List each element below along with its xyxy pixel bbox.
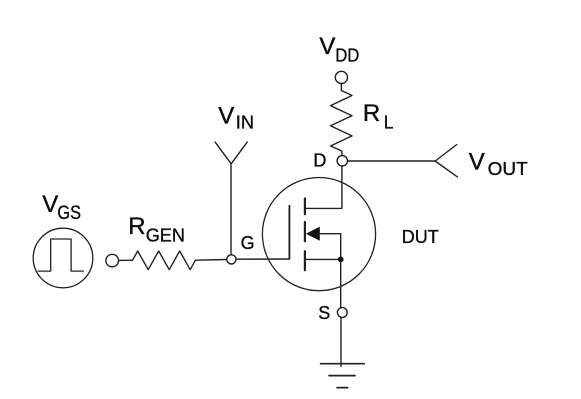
svg-text:V: V xyxy=(319,33,335,60)
body arrow xyxy=(306,227,320,241)
input terminal xyxy=(106,254,119,267)
svg-text:OUT: OUT xyxy=(488,158,528,179)
svg-text:S: S xyxy=(318,303,330,323)
junction dot xyxy=(338,257,344,263)
label VIN xyxy=(218,103,254,133)
svg-text:R: R xyxy=(128,213,145,240)
wire VDD to RL xyxy=(340,84,342,91)
label VOUT xyxy=(469,148,528,179)
svg-text:IN: IN xyxy=(236,112,254,133)
svg-text:L: L xyxy=(384,111,394,132)
label RGEN xyxy=(128,213,185,246)
wire RGEN to node G xyxy=(195,259,226,262)
transistor Q1 DUT envelope xyxy=(262,178,375,291)
node G xyxy=(227,255,236,264)
wire terminal to RGEN xyxy=(119,259,133,261)
node S xyxy=(337,308,347,318)
svg-text:GS: GS xyxy=(57,203,81,224)
svg-text:R: R xyxy=(363,100,380,127)
svg-text:D: D xyxy=(313,150,326,170)
body to source connection xyxy=(320,234,341,260)
channel segments xyxy=(304,199,306,271)
probe VOUT xyxy=(435,145,457,177)
resistor RL xyxy=(331,91,353,156)
gate bar xyxy=(288,206,290,259)
node D xyxy=(337,156,347,166)
wire S to ground xyxy=(340,318,342,367)
svg-text:V: V xyxy=(42,191,58,218)
svg-text:DD: DD xyxy=(335,45,359,66)
svg-text:V: V xyxy=(218,103,234,130)
terminal VDD xyxy=(335,71,347,83)
resistor RGEN xyxy=(133,251,196,270)
probe VIN xyxy=(215,142,247,255)
pulse waveform xyxy=(38,239,83,271)
svg-text:V: V xyxy=(469,148,485,175)
svg-text:GEN: GEN xyxy=(146,225,185,246)
wire node G to gate xyxy=(236,258,289,260)
drain connection xyxy=(305,166,342,208)
label VGS xyxy=(42,191,81,224)
ground xyxy=(321,364,365,388)
pulse source VGS xyxy=(33,228,93,288)
wire node D to VOUT probe xyxy=(348,160,436,162)
label RL xyxy=(363,100,394,132)
source connection xyxy=(305,259,341,307)
svg-text:DUT: DUT xyxy=(402,227,439,247)
svg-text:G: G xyxy=(241,233,255,253)
label VDD xyxy=(319,33,359,65)
